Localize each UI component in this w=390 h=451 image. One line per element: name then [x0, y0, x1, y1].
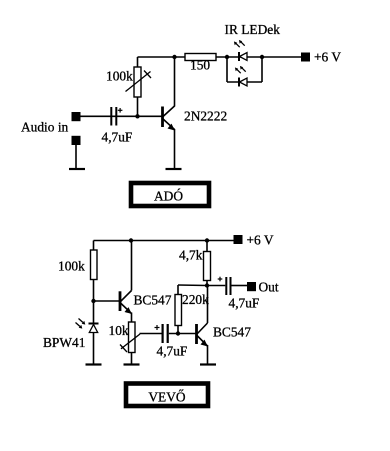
- wire top rail mid segment: [215, 56, 301, 58]
- terminal audio in upper (square): [72, 112, 81, 121]
- node junction LED-left: [225, 55, 229, 59]
- node junction collector-rail: [172, 55, 176, 59]
- svg-text:100k: 100k: [106, 69, 133, 84]
- photodiode BPW41: [89, 301, 99, 364]
- wire cap to out terminal: [232, 285, 248, 287]
- wire base Q2: [94, 300, 120, 302]
- resistor 220k: [175, 285, 207, 334]
- svg-text:Audio in: Audio in: [21, 120, 69, 135]
- trimmer resistor 10k: [129, 322, 136, 364]
- ground Q1 emitter: [166, 168, 182, 170]
- terminal +6V bottom (square): [234, 235, 243, 244]
- node junction 4,7k-collector-out: [205, 283, 209, 287]
- trimmer 10k arrow: [120, 334, 140, 352]
- node junction 220k-base: [176, 331, 180, 335]
- svg-text:+6 V: +6 V: [247, 233, 274, 248]
- terminal +6V top (square): [301, 53, 310, 62]
- wire collector Q3: [207, 286, 209, 324]
- svg-text:100k: 100k: [58, 259, 85, 274]
- terminal Out (square): [247, 282, 256, 291]
- svg-text:BC547: BC547: [134, 293, 172, 308]
- svg-text:ADÓ: ADÓ: [154, 189, 183, 204]
- ground Q3 emitter: [200, 363, 216, 365]
- trimmer resistor 100k top: [134, 57, 141, 116]
- wire collector Q1: [174, 57, 176, 107]
- terminal audio in lower (square): [72, 136, 81, 145]
- LED D1: [239, 52, 247, 61]
- LED D2: [239, 78, 247, 87]
- wire emitter Q3: [207, 345, 209, 364]
- transistor Q3 BC547: [197, 323, 208, 347]
- wire base Q1: [81, 115, 162, 117]
- node junction 4,7k-rail: [205, 238, 209, 242]
- capacitor C3 plus sign: [218, 277, 223, 282]
- wire LED branch right vertical: [261, 57, 263, 82]
- svg-text:+6 V: +6 V: [314, 50, 341, 65]
- wire top rail left segment: [138, 56, 187, 58]
- resistor 4,7k: [204, 241, 211, 286]
- svg-text:VEVŐ: VEVŐ: [148, 390, 186, 405]
- wire collector junction to out cap: [207, 285, 225, 287]
- trimmer 100k arrow: [126, 71, 152, 92]
- svg-text:Out: Out: [259, 280, 279, 295]
- svg-text:4,7k: 4,7k: [179, 248, 203, 263]
- wire LED branch left vertical: [226, 57, 228, 82]
- svg-text:2N2222: 2N2222: [184, 109, 227, 124]
- transistor Q2 BC547: [120, 291, 132, 315]
- LED D1 light arrows: [234, 40, 245, 47]
- wire audio ground: [75, 145, 77, 169]
- svg-text:10k: 10k: [109, 323, 129, 338]
- capacitor C2 plus sign: [155, 325, 160, 330]
- ground 10k: [124, 363, 140, 365]
- VEVO title box: [126, 384, 208, 407]
- node junction LED-right: [260, 55, 264, 59]
- svg-text:IR LEDek: IR LEDek: [225, 22, 281, 37]
- svg-text:4,7uF: 4,7uF: [102, 130, 133, 145]
- wire collector Q2: [131, 241, 133, 291]
- svg-text:4,7uF: 4,7uF: [229, 296, 260, 311]
- photodiode BPW41 light arrows: [76, 319, 86, 329]
- ADO title box: [131, 183, 209, 206]
- capacitor C1 4,7uF: [110, 107, 117, 126]
- svg-text:BPW41: BPW41: [43, 335, 85, 350]
- ground photodiode: [86, 363, 102, 365]
- wire top rail bottom circuit: [94, 240, 234, 242]
- svg-text:150: 150: [190, 58, 210, 73]
- resistor R 150: [185, 54, 216, 61]
- wire cap to base Q3: [169, 333, 196, 335]
- ground audio in: [69, 168, 85, 170]
- svg-text:220k: 220k: [182, 292, 209, 307]
- transistor Q1 2N2222: [163, 106, 175, 131]
- capacitor C2 4,7uF: [162, 324, 169, 343]
- wire emitter Q1: [174, 129, 176, 169]
- resistor 100k bottom: [91, 241, 98, 302]
- LED D2 light arrows: [235, 66, 246, 73]
- node junction Q2 collector-rail: [129, 238, 133, 242]
- svg-text:4,7uF: 4,7uF: [157, 344, 188, 359]
- capacitor C3 4,7uF out: [225, 277, 231, 295]
- node junction 100k-base-photodiode: [91, 299, 95, 303]
- capacitor C1 plus sign: [118, 108, 123, 113]
- wire LED branch bottom: [227, 81, 262, 83]
- wire wiper to cap: [140, 333, 162, 335]
- svg-text:BC547: BC547: [213, 325, 251, 340]
- node junction 100k-base: [135, 114, 139, 118]
- wire emitter Q2: [131, 313, 133, 323]
